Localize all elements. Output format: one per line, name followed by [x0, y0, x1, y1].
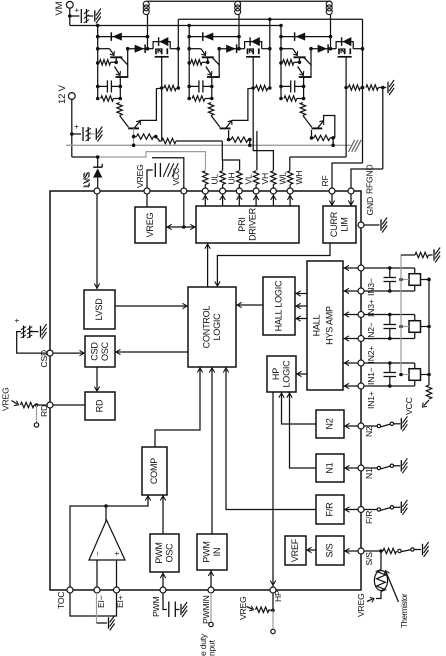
hall sensor H3 [364, 266, 431, 293]
svg-text:PWM: PWM [154, 542, 164, 563]
pin RFGND [348, 188, 354, 194]
wire PRI DRIVER to VL [237, 194, 242, 206]
label LVS [82, 172, 92, 187]
svg-text:PWM: PWM [151, 597, 161, 617]
capacitor CSD [13, 318, 39, 338]
wire RF to CURR LIM [329, 194, 334, 206]
svg-text:IN: IN [212, 548, 222, 557]
pin RD [47, 402, 53, 408]
svg-text:WH: WH [294, 171, 304, 185]
pin RF [329, 188, 335, 194]
resistor UH series [220, 171, 225, 188]
pin IN3+ [358, 288, 364, 294]
wire pin IN1- to HYS AMP [343, 360, 358, 365]
wire thermistor lead [380, 551, 382, 565]
label WH [294, 171, 304, 185]
svg-text:OSC: OSC [164, 543, 174, 563]
pin EI- [94, 587, 100, 593]
terminal PWMIN [209, 622, 213, 626]
IC package outline [50, 191, 361, 590]
svg-text:VREG: VREG [1, 387, 11, 411]
svg-text:LIM: LIM [339, 217, 349, 231]
pin GND [358, 222, 364, 228]
resistor hall top [401, 252, 433, 257]
wire PRI DRIVER to WH [287, 194, 292, 206]
wire GND pin external [364, 224, 380, 226]
wire phase W bus [279, 24, 283, 101]
pin UL [202, 188, 208, 194]
svg-text:LVSD: LVSD [94, 298, 104, 321]
ground VM cap [95, 9, 101, 24]
wire pin N2 to block [344, 423, 358, 428]
block CSD OSC [85, 336, 115, 367]
wire PRI DRIVER to WL [271, 194, 276, 206]
label VCC pin [171, 168, 181, 186]
svg-text:HP: HP [271, 368, 281, 380]
svg-text:N1: N1 [364, 468, 374, 479]
svg-text:EI−: EI− [96, 595, 106, 608]
svg-text:RD: RD [39, 405, 49, 417]
wire N1 to HP LOGIC [287, 392, 316, 468]
resistor R1 phase U [99, 60, 116, 65]
svg-text:IN2−: IN2− [366, 322, 376, 340]
mosfet phase V [239, 37, 272, 89]
resistor R3 phase W [300, 103, 305, 116]
svg-text:F/R: F/R [325, 502, 335, 517]
svg-text:VL: VL [243, 174, 253, 185]
ground 12V cap [96, 127, 102, 142]
transistor Q3 phase U [120, 88, 162, 128]
wire F/R to CONTROL LOGIC [223, 367, 316, 510]
block N1 [316, 454, 344, 482]
label EI- [96, 595, 106, 608]
note PWM duty [198, 633, 217, 656]
wire feedback to TOC [70, 506, 106, 587]
label N2 pin [364, 426, 374, 437]
wire VCC bypass [152, 158, 184, 188]
svg-text:nput: nput [207, 639, 217, 656]
pin VREG [144, 188, 150, 194]
wire RD tap [36, 405, 38, 423]
wire EI+ to op-amp [116, 560, 118, 587]
svg-text:IN1+: IN1+ [366, 391, 376, 409]
resistor R5 gate phase W [348, 85, 364, 90]
block VREF [285, 536, 306, 565]
pin VH [253, 188, 259, 194]
diode LVS [81, 157, 102, 188]
svg-text:RD: RD [95, 399, 105, 412]
transistor Q3 phase W [303, 116, 335, 138]
pin IN2+ [358, 336, 364, 342]
switch S/S external [364, 542, 429, 557]
wire PWM cap lead [163, 593, 167, 610]
wire pin IN1+ to HYS AMP [343, 383, 358, 388]
diode phase V flyback [189, 32, 241, 41]
label PWM pin [151, 597, 161, 617]
svg-text:PWM: PWM [201, 541, 211, 562]
resistor R1 phase W [283, 60, 300, 65]
block PWM OSC [150, 534, 179, 572]
label WL [277, 172, 287, 185]
switch N2 external [364, 416, 407, 431]
block HP LOGIC [267, 356, 296, 392]
label VL [243, 174, 253, 185]
wire source column U [177, 19, 179, 88]
wire PRI DRIVER to UH [220, 194, 225, 206]
wire CSD external [17, 332, 47, 354]
wire VREG pin to block [146, 194, 148, 207]
wire 12V lead [70, 99, 74, 157]
svg-text:IN3−: IN3− [366, 278, 376, 296]
label VREG at thermistor [356, 593, 374, 617]
wire HYS AMP to HP LOGIC [296, 371, 307, 376]
label S/S pin [364, 552, 374, 566]
block PWM IN [197, 534, 227, 570]
wire CSD to CSD OSC [53, 350, 84, 355]
wire source column V [269, 19, 271, 88]
svg-text:+: + [13, 318, 22, 323]
wire logic gnd rail [66, 144, 351, 146]
wire CONTROL LOGIC to CSD OSC [115, 349, 188, 354]
block S/S [316, 536, 344, 565]
wire thermistor bottom [376, 595, 381, 599]
svg-text:UL: UL [209, 173, 219, 184]
switch F/R external [364, 500, 407, 515]
wire HP LOGIC to HP pin [270, 392, 275, 587]
resistor R2 phase U [101, 96, 122, 101]
resistor RD [21, 402, 35, 407]
wire CONTROL LOGIC - PRI DRIVER [205, 243, 210, 287]
svg-text:VREG: VREG [238, 596, 248, 620]
block CURR LIM [323, 206, 356, 243]
pin N1 [358, 465, 364, 471]
pin UH [220, 188, 226, 194]
wire PWMIN to PWM IN [208, 570, 213, 587]
terminal RD out [34, 423, 38, 427]
wire LVSD to CONTROL LOGIC [115, 303, 187, 308]
transistor Q1 phase W [281, 49, 311, 65]
wire source column W [362, 19, 364, 163]
svg-text:PWMIN: PWMIN [201, 595, 211, 624]
resistor R2 phase W [284, 96, 305, 101]
resistor WH series [287, 171, 292, 188]
thermistor [374, 565, 387, 596]
capacitor PWM [169, 602, 180, 618]
wire pin IN3- to HYS AMP [343, 265, 358, 270]
resistor R2 phase V [192, 96, 213, 101]
transistor Q1 phase U [98, 49, 128, 65]
wire pin IN2- to HYS AMP [343, 312, 358, 317]
svg-text:LOGIC: LOGIC [212, 313, 222, 341]
svg-text:LOGIC: LOGIC [281, 360, 291, 388]
wire UH VL drive [159, 88, 240, 170]
wire PRI DRIVER to UL [203, 194, 208, 206]
svg-text:+: + [72, 124, 81, 129]
resistor UL series [203, 171, 208, 188]
pin PWMIN [208, 587, 214, 593]
transistor Q2 phase W [298, 65, 312, 99]
pin IN2- [358, 312, 364, 318]
wire op-amp output [104, 504, 108, 522]
ground EI- [109, 616, 115, 631]
ground logic rail gray [349, 140, 362, 152]
pin TOC [67, 587, 73, 593]
transistor Q1 phase V [189, 49, 219, 65]
svg-text:DRIVER: DRIVER [247, 207, 257, 241]
svg-text:COMP: COMP [149, 458, 159, 484]
label UL [209, 173, 219, 184]
wire pin S/S to block [344, 548, 358, 553]
svg-text:HALL LOGIC: HALL LOGIC [274, 280, 284, 331]
label F/R pin [364, 511, 374, 524]
label IN3- [366, 278, 376, 296]
label PWMIN [201, 595, 211, 624]
svg-text:CONTROL: CONTROL [201, 306, 211, 349]
label GND [365, 197, 375, 216]
ground GND pin [381, 218, 387, 233]
wire hall bias gray [400, 255, 402, 372]
wire RF jog [332, 163, 363, 188]
svg-text:WL: WL [277, 172, 287, 185]
block LVSD [84, 290, 115, 329]
wire source rail [178, 18, 362, 22]
svg-text:GND: GND [365, 197, 375, 216]
resistor R5 gate phase U [164, 85, 180, 90]
label RD [39, 405, 49, 417]
svg-text:CURR: CURR [329, 211, 339, 237]
resistor hall VCC [426, 385, 431, 399]
wire CSD OSC to RD [94, 367, 99, 391]
resistor VH series [253, 171, 258, 188]
pin VL [236, 188, 242, 194]
resistor VL series [237, 171, 242, 188]
svg-text:HYS AMP: HYS AMP [325, 306, 335, 345]
pin LVS [94, 188, 100, 194]
label RF [320, 175, 330, 186]
inductor coil U [143, 1, 149, 51]
diode phase V series [217, 44, 239, 53]
pin VCC [181, 188, 187, 194]
wire VM lead [68, 8, 72, 26]
mosfet phase U [148, 37, 181, 89]
capacitor VM [70, 8, 93, 24]
wire hall bias black [428, 277, 430, 385]
wire HYS AMP to HALL LOGIC b [295, 303, 307, 308]
pin F/R [358, 507, 364, 513]
wire RD external [34, 403, 47, 407]
resistor WL series [271, 171, 276, 188]
transistor Q2 phase V [206, 65, 220, 99]
wire VCC pin feed [183, 194, 185, 227]
resistor HP pull-up [256, 607, 270, 612]
wire COMP to CONTROL LOGIC [155, 367, 203, 447]
wire motor common [148, 0, 331, 2]
switch N1 external [364, 458, 407, 473]
wire pin N1 to block [344, 465, 358, 470]
hall sensor H1 [364, 361, 431, 388]
pin HP [270, 587, 276, 593]
label UH [227, 172, 237, 184]
wire PRI DRIVER to VH [253, 194, 258, 206]
resistor R4 phase U [134, 134, 160, 141]
svg-text:RF: RF [320, 175, 330, 186]
label CSD [39, 350, 49, 368]
diode phase U series [126, 44, 148, 53]
pin CSD [47, 350, 53, 356]
svg-text:Thermistor: Thermistor [400, 593, 409, 628]
svg-text:VCC: VCC [404, 397, 414, 415]
label IN3+ [366, 299, 376, 317]
svg-text:S/S: S/S [325, 543, 335, 557]
svg-text:IN1−: IN1− [366, 367, 376, 385]
label VREG at HP [238, 596, 254, 620]
wire WH drive [290, 88, 346, 171]
svg-text:12 V: 12 V [57, 84, 68, 104]
resistor R1 phase V [191, 60, 208, 65]
wire 12V to LVS node [72, 155, 100, 159]
svg-text:+: + [113, 551, 122, 556]
svg-text:N1: N1 [325, 462, 335, 473]
resistor R3 phase U [117, 103, 122, 116]
diode phase U flyback [98, 32, 150, 41]
wire pin F/R to block [344, 507, 358, 512]
wire RFGND to CURR LIM [348, 194, 353, 206]
op-amp error amp [89, 520, 125, 560]
block PRI DRIVER [196, 206, 299, 243]
pin IN3- [358, 265, 364, 271]
svg-text:HALL: HALL [312, 314, 322, 336]
svg-text:IN2+: IN2+ [366, 346, 376, 364]
wire op-amp to COMP [106, 495, 151, 506]
svg-text:VREG: VREG [145, 212, 155, 237]
wire pin IN3+ to HYS AMP [343, 288, 358, 293]
wire PWM IN to CONTROL LOGIC [209, 367, 214, 534]
label IN1- [366, 367, 376, 385]
label IN2- [366, 322, 376, 340]
wire PWM pin to PWM OSC [160, 572, 165, 587]
pin IN1+ [358, 383, 364, 389]
pin WH [287, 188, 293, 194]
label EI+ [115, 595, 125, 608]
svg-text:VREG: VREG [356, 593, 366, 617]
svg-text:N2: N2 [364, 426, 374, 437]
label VH [260, 173, 270, 185]
svg-text:VREF: VREF [290, 538, 300, 562]
label IN2+ [366, 346, 376, 364]
wire R4 chain phase V [227, 130, 252, 147]
svg-text:N2: N2 [325, 418, 335, 429]
svg-text:VH: VH [260, 173, 270, 185]
ground RF sense [388, 80, 394, 95]
svg-text:−: − [93, 551, 102, 556]
resistor RF sense [361, 85, 387, 90]
wire TOC to EI+ link [70, 593, 117, 616]
wire Q3 U emitter gray [132, 128, 136, 147]
mosfet phase W [331, 37, 365, 89]
transistor Q3 phase V [211, 88, 253, 128]
block HALL LOGIC [263, 277, 295, 335]
wire VREG - PRI DRIVER [166, 224, 196, 229]
wire PWMIN external [210, 593, 212, 622]
pin VM [54, 1, 73, 15]
pin WL [270, 188, 276, 194]
ground CSD [41, 324, 47, 339]
ground hall top [434, 248, 440, 263]
pin PWM [160, 587, 166, 593]
inductor coil W [326, 1, 332, 51]
wire HALL LOGIC to CONTROL LOGIC [236, 302, 263, 307]
svg-text:PRI: PRI [237, 217, 247, 231]
svg-text:UH: UH [227, 172, 237, 184]
resistor R5 gate phase V [256, 85, 272, 90]
wire LVS to LVSD [94, 194, 99, 289]
wire VH drive [256, 131, 258, 170]
svg-text:VM: VM [54, 1, 65, 15]
label VCC hall [404, 397, 429, 415]
block COMP [142, 447, 167, 495]
pin 12V [57, 84, 75, 104]
block VREG [135, 207, 166, 243]
hall sensor H2 [364, 313, 431, 341]
wire HP terminal lead [272, 610, 274, 629]
wire VREG bypass [147, 170, 153, 188]
wire N2 to HP LOGIC [279, 392, 316, 424]
svg-text:VREG: VREG [135, 164, 145, 188]
label TOC [56, 592, 66, 609]
svg-text:S/S: S/S [364, 552, 374, 566]
wire RD block to RD pin [53, 404, 85, 406]
pin EI+ [114, 587, 120, 593]
label IN1+ [366, 391, 376, 409]
wire CURR LIM to CONTROL LOGIC [215, 243, 330, 286]
block F/R [316, 495, 344, 524]
wire HYS AMP to HALL LOGIC a [295, 291, 307, 296]
svg-text:HP: HP [273, 590, 283, 602]
capacitor phase W [281, 80, 305, 92]
label VREG ext [0, 0, 1, 1]
ground VREG cap [163, 163, 178, 177]
label N1 pin [364, 468, 374, 479]
terminal HP out [271, 629, 275, 633]
capacitor VREG [155, 163, 160, 177]
svg-text:CSD: CSD [89, 342, 99, 361]
pin N2 [358, 423, 364, 429]
label VREG at RD [1, 387, 19, 411]
label RFGND [365, 164, 375, 194]
transistor Q2 phase U [114, 65, 128, 99]
svg-text:F/R: F/R [364, 511, 374, 524]
wire EI- to op-amp [96, 560, 98, 587]
wire phase U bus [96, 24, 100, 101]
wire EI- ground lead [97, 593, 108, 623]
wire pin IN2+ to HYS AMP [343, 336, 358, 341]
label Thermistor [384, 571, 409, 629]
diode phase W series [309, 44, 330, 53]
block RD [85, 392, 115, 420]
svg-text:+: + [73, 8, 82, 13]
svg-text:OSC: OSC [100, 341, 110, 361]
block N2 [316, 410, 344, 438]
wire phase V bus [187, 24, 191, 101]
wire R4 chain phase W [310, 130, 335, 147]
inductor coil V [235, 1, 241, 51]
wire PWM OSC to COMP [160, 495, 165, 534]
wire S/S to VREF [306, 547, 316, 552]
block CONTROL LOGIC [188, 287, 236, 367]
wire WL drive [253, 88, 273, 170]
wire HYS AMP to HALL LOGIC c [295, 316, 307, 321]
svg-text:TOC: TOC [56, 592, 66, 609]
